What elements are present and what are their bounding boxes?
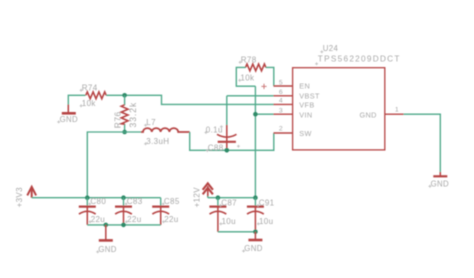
svg-text:1: 1 — [395, 106, 399, 113]
node SW-C88 junction — [225, 148, 230, 153]
svg-text:GND: GND — [360, 110, 377, 119]
ground GND right — [439, 172, 441, 176]
svg-text:L7: L7 — [146, 118, 156, 127]
node rail C91 — [253, 195, 258, 200]
svg-text:6: 6 — [279, 89, 283, 96]
supply +3V3 arrow — [27, 187, 36, 198]
capacitor C91 — [254, 198, 256, 206]
wire 12V rail — [208, 197, 256, 199]
svg-text:10u: 10u — [259, 217, 273, 226]
wire pin1 to right GND — [404, 114, 441, 172]
capacitor C87 — [217, 198, 219, 206]
svg-text:C87: C87 — [221, 198, 237, 207]
capacitor C80 — [86, 198, 88, 206]
resistor R74 — [86, 92, 106, 99]
svg-text:+3V3: +3V3 — [15, 187, 24, 208]
svg-text:3.3uH: 3.3uH — [146, 137, 169, 146]
node VIN junction — [253, 112, 258, 117]
svg-text:R78: R78 — [241, 55, 257, 64]
svg-text:+12V: +12V — [193, 187, 202, 208]
node gnd tap mid — [253, 230, 258, 235]
ground GND bottom-mid — [254, 232, 256, 240]
resistor R76 — [124, 95, 126, 105]
wire VIN vertical rail — [254, 86, 256, 198]
inductor L7 — [141, 128, 190, 132]
node rail C87 — [216, 195, 221, 200]
node FB junction — [122, 93, 127, 98]
svg-text:R74: R74 — [82, 83, 98, 92]
wire R74 left to GND corner — [68, 95, 85, 105]
ground GND left — [67, 105, 69, 113]
pin 1 GND — [385, 113, 404, 115]
svg-text:C80: C80 — [90, 197, 106, 206]
svg-text:10k: 10k — [240, 73, 255, 82]
capacitor C83 — [123, 198, 125, 206]
plus origin marker — [261, 84, 266, 89]
wire VIN to IC — [255, 113, 274, 115]
svg-text:GND: GND — [98, 245, 116, 254]
svg-text:22u: 22u — [127, 215, 141, 224]
svg-text:GND: GND — [60, 115, 78, 124]
svg-text:TPS562209DDCT: TPS562209DDCT — [318, 54, 401, 63]
wire bottom rail left — [87, 224, 160, 226]
resistor R78 — [246, 64, 266, 71]
svg-text:22u: 22u — [91, 215, 105, 224]
node rail C80 — [85, 195, 90, 200]
supply +12V arrow — [203, 183, 213, 197]
node VOUT junction at R76 bottom — [122, 130, 127, 135]
svg-text:EN: EN — [299, 82, 310, 91]
svg-text:U24: U24 — [323, 44, 339, 53]
origin tick marks — [57, 50, 431, 253]
pin 4 VFB — [274, 103, 293, 105]
svg-text:33.2k: 33.2k — [128, 102, 138, 128]
wire 3V3 rail — [32, 197, 161, 199]
svg-text:C88: C88 — [208, 144, 224, 153]
pin 3 VIN — [274, 113, 293, 115]
pin 6 VBST — [274, 95, 293, 97]
svg-text:VFB: VFB — [299, 101, 314, 110]
pin 2 SW — [274, 132, 293, 134]
wire R78 right down to EN — [266, 67, 274, 86]
svg-text:VBST: VBST — [299, 91, 320, 100]
wire R74 right to junction to jog — [106, 95, 274, 104]
svg-text:SW: SW — [299, 129, 311, 138]
svg-text:VIN: VIN — [299, 110, 312, 119]
svg-text:22u: 22u — [164, 215, 178, 224]
svg-text:C91: C91 — [259, 198, 275, 207]
node C83 bottom — [121, 223, 126, 228]
svg-text:5: 5 — [279, 79, 283, 86]
svg-text:4: 4 — [279, 98, 283, 105]
svg-text:C85: C85 — [164, 197, 180, 206]
svg-text:GND: GND — [431, 179, 449, 188]
wire bottom rail mid — [218, 231, 256, 233]
wire VBST run — [227, 95, 274, 97]
svg-text:2: 2 — [279, 125, 283, 132]
IC U24 TPS562209DDCT — [293, 68, 385, 150]
svg-text:10u: 10u — [222, 217, 236, 226]
capacitor C88 — [226, 96, 228, 126]
node gnd tap — [104, 223, 109, 228]
svg-text:R76: R76 — [113, 111, 123, 128]
svg-text:3: 3 — [279, 107, 283, 114]
wire L7 right down to SW row — [190, 132, 274, 150]
wire junction left down to 3V3 rail — [87, 132, 124, 198]
wire junction right to L7 — [125, 131, 142, 133]
svg-text:10k: 10k — [82, 99, 97, 108]
svg-text:GND: GND — [244, 244, 262, 253]
node rail C83 — [121, 195, 126, 200]
ground GND bottom-left — [105, 225, 107, 240]
capacitor C85 — [160, 198, 162, 206]
pin 5 EN — [274, 85, 293, 87]
wire R78 left down to VIN net — [236, 67, 255, 86]
svg-text:C83: C83 — [127, 197, 143, 206]
